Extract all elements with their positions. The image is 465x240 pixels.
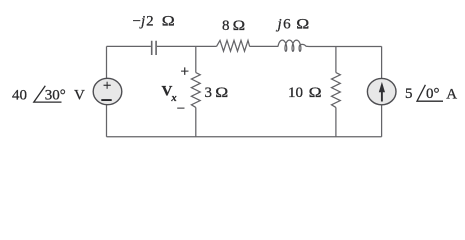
wire left vertical upper — [106, 46, 108, 78]
wire 3-ohm branch lower — [195, 107, 197, 136]
svg-text:Ω: Ω — [296, 17, 309, 33]
svg-text:10: 10 — [288, 85, 303, 101]
svg-text:j6: j6 — [276, 17, 292, 33]
svg-text:Ω: Ω — [233, 18, 246, 34]
svg-text:A: A — [446, 86, 457, 102]
svg-text:40: 40 — [12, 88, 27, 104]
svg-text:x: x — [170, 93, 176, 104]
wire top-right segment (inductor to corner) — [309, 45, 382, 47]
resistor 3-ohm zigzag — [191, 73, 200, 108]
wire top segment (8-ohm to inductor) — [250, 45, 279, 47]
wire top-left segment — [107, 45, 151, 47]
svg-text:30°: 30° — [45, 88, 66, 104]
angle symbol for 5/0 A — [417, 85, 443, 101]
voltage source minus sign — [101, 99, 111, 101]
current source arrow — [379, 82, 385, 102]
capacitor C (-j2 ohm) plates — [152, 41, 156, 55]
svg-text:8: 8 — [222, 18, 230, 34]
voltage source V1 circle — [93, 78, 122, 104]
wire 10-ohm branch lower — [335, 107, 337, 136]
svg-text:Ω: Ω — [309, 85, 322, 101]
wire 10-ohm branch upper — [335, 46, 337, 72]
svg-text:5: 5 — [405, 86, 413, 102]
svg-text:+: + — [180, 64, 189, 81]
inductor j6-ohm coil — [278, 40, 309, 51]
resistor 8-ohm zigzag — [217, 40, 250, 51]
angle symbol for 40/30 V — [34, 86, 62, 102]
wire 3-ohm branch upper — [195, 46, 197, 72]
svg-text:Ω: Ω — [162, 14, 175, 30]
svg-text:V: V — [74, 88, 85, 104]
svg-text:−j2: −j2 — [133, 14, 154, 30]
svg-text:+: + — [103, 78, 111, 94]
svg-text:−: − — [177, 101, 185, 117]
wire bottom — [107, 136, 382, 138]
wire top middle segment (capacitor to 8-ohm) — [157, 45, 217, 47]
svg-text:3: 3 — [205, 85, 213, 101]
current source I1 circle — [367, 78, 396, 104]
svg-text:0°: 0° — [426, 86, 440, 102]
wire right vertical lower — [381, 105, 383, 137]
wire right vertical upper — [381, 46, 383, 78]
resistor 10-ohm zigzag — [332, 73, 341, 108]
svg-text:Ω: Ω — [215, 85, 228, 101]
wire left vertical lower — [106, 105, 108, 137]
